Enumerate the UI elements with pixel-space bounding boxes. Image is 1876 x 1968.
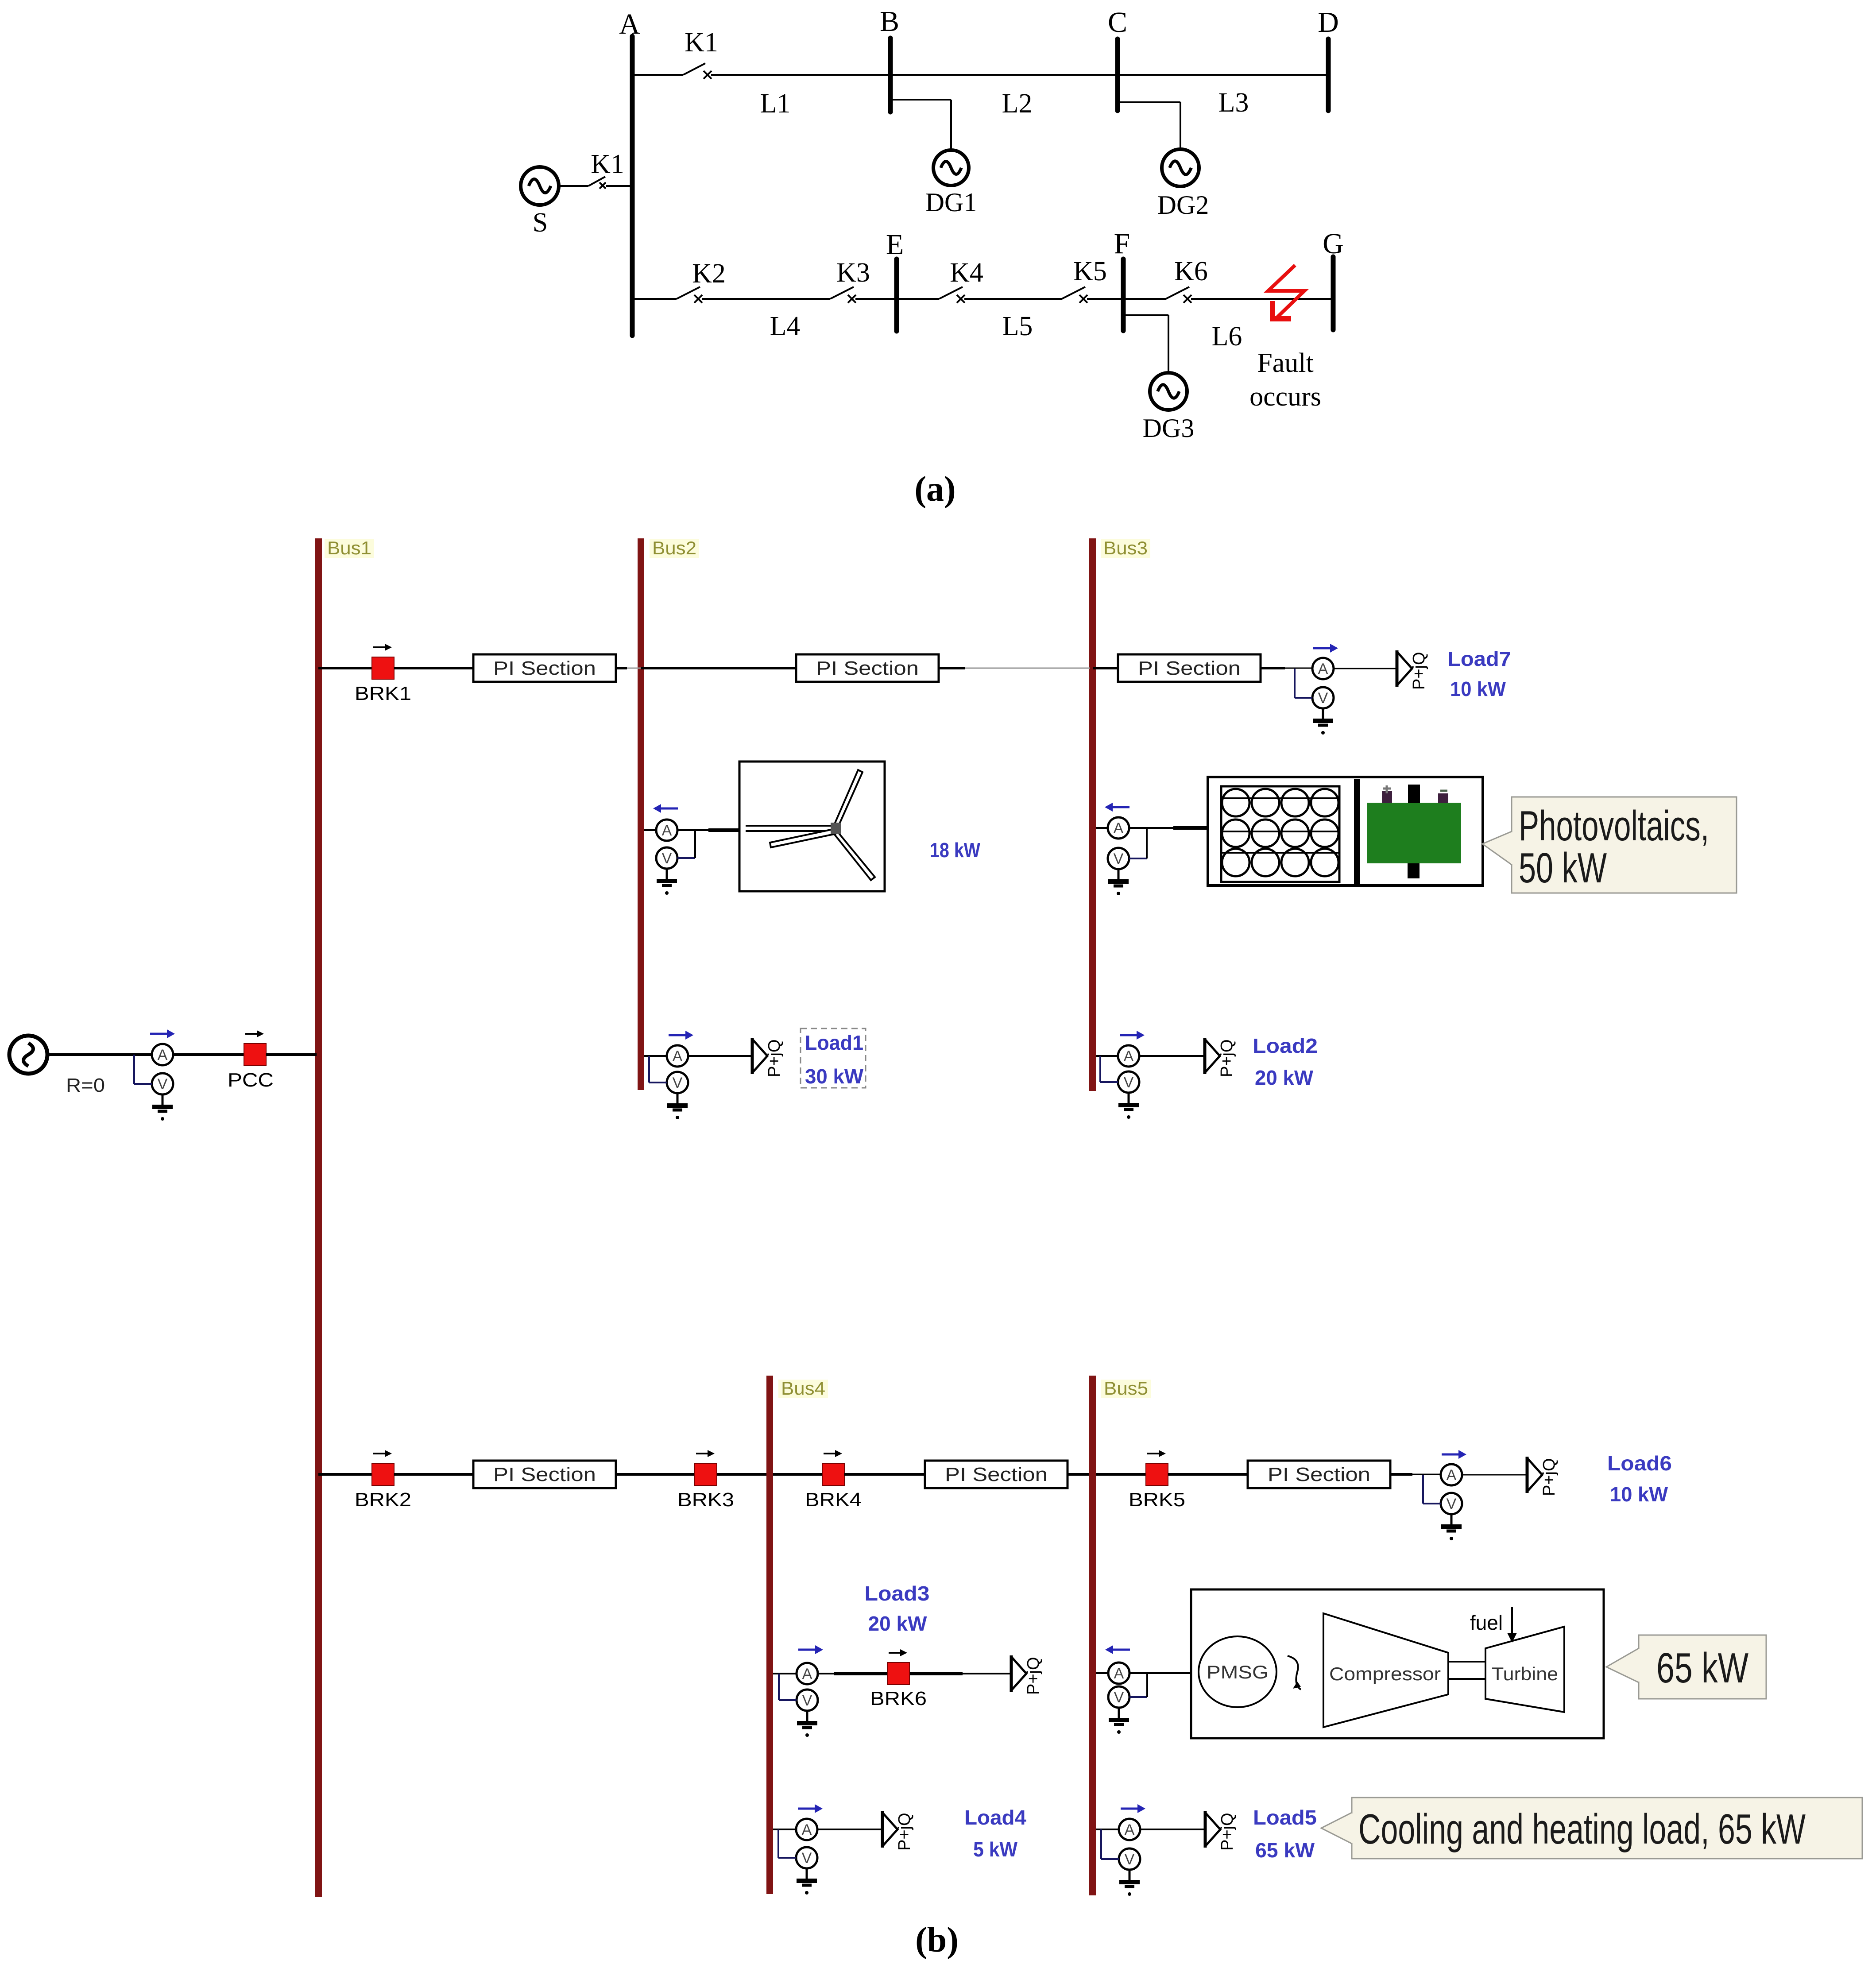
breaker BRK4 bbox=[805, 1450, 862, 1511]
PI section 4 bbox=[473, 1461, 616, 1488]
generator DG2 label bbox=[1157, 190, 1209, 220]
svg-text:BRK1: BRK1 bbox=[355, 683, 411, 704]
wire Bus1 to BRK1 bbox=[318, 667, 372, 669]
switch K5 x mark bbox=[1079, 295, 1087, 303]
flow arrow (Load2) bbox=[1120, 1031, 1145, 1040]
wire L5 K4 to K5 bbox=[964, 298, 1062, 300]
svg-text:A: A bbox=[1318, 661, 1328, 677]
svg-text:A: A bbox=[802, 1666, 812, 1682]
flow arrow (microturbine) bbox=[1105, 1645, 1130, 1654]
wire ammeter to BRK6 bbox=[818, 1673, 963, 1674]
load Load6 label bbox=[1607, 1452, 1672, 1506]
switch K5 blade bbox=[1062, 287, 1085, 299]
svg-text:Load5: Load5 bbox=[1253, 1806, 1317, 1829]
svg-text:Bus5: Bus5 bbox=[1104, 1378, 1148, 1399]
wire BRK5 to PI section 6 bbox=[1168, 1473, 1248, 1476]
bus F bbox=[1121, 259, 1126, 331]
svg-text:PI Section: PI Section bbox=[1268, 1464, 1370, 1485]
wire ammeter to wind turbine bbox=[677, 829, 740, 831]
svg-text:Cooling and heating load, 65 k: Cooling and heating load, 65 kW bbox=[1358, 1806, 1806, 1853]
svg-text:occurs: occurs bbox=[1249, 382, 1321, 412]
bus E label bbox=[886, 228, 904, 261]
load Load6 symbol bbox=[1527, 1457, 1559, 1496]
ammeter/voltmeter (Load4) bbox=[778, 1819, 817, 1895]
breaker BRK3 bbox=[677, 1450, 734, 1511]
wire bus B to DG1 bbox=[893, 100, 951, 150]
PI section 3 bbox=[1118, 654, 1261, 682]
svg-text:A: A bbox=[158, 1047, 168, 1063]
microturbine callout bbox=[1606, 1635, 1766, 1699]
wire ammeter to microturbine bbox=[1129, 1672, 1192, 1674]
svg-text:PI Section: PI Section bbox=[1138, 657, 1241, 679]
bus A bbox=[630, 36, 635, 336]
svg-text:K3: K3 bbox=[836, 258, 870, 288]
wire source to ammeter bbox=[47, 1053, 152, 1056]
ammeter/voltmeter (grid) bbox=[134, 1044, 173, 1121]
wire Bus1 to BRK2 bbox=[318, 1473, 372, 1476]
ammeter/voltmeter (Load2) bbox=[1100, 1045, 1139, 1119]
svg-text:DG3: DG3 bbox=[1143, 414, 1195, 443]
wire ammeter to PCC breaker bbox=[173, 1053, 244, 1056]
switch K5 label bbox=[1073, 256, 1107, 286]
grid source bbox=[9, 1036, 47, 1074]
svg-text:V: V bbox=[1318, 690, 1328, 707]
wire Bus4 to BRK4 bbox=[773, 1473, 822, 1476]
svg-text:Load2: Load2 bbox=[1253, 1034, 1318, 1057]
svg-text:P+jQ: P+jQ bbox=[895, 1813, 914, 1851]
svg-text:L1: L1 bbox=[760, 89, 791, 119]
wire ammeter to Load1 bbox=[688, 1055, 752, 1057]
wind power label bbox=[930, 839, 980, 862]
switch K1 blade (lower) bbox=[588, 177, 605, 186]
ammeter/voltmeter (Load6) bbox=[1423, 1464, 1462, 1540]
switch K1 x mark (lower) bbox=[600, 182, 606, 189]
svg-text:Load1: Load1 bbox=[805, 1031, 863, 1054]
wire bus C to DG2 bbox=[1120, 102, 1180, 149]
wire BRK2 to PI section 4 bbox=[394, 1473, 473, 1476]
load Load3 label bbox=[865, 1582, 930, 1635]
svg-text:Bus1: Bus1 bbox=[327, 537, 371, 558]
load Load1 symbol bbox=[752, 1038, 784, 1077]
switch K6 x mark bbox=[1184, 295, 1191, 303]
line L1 label bbox=[760, 89, 791, 119]
svg-text:P+jQ: P+jQ bbox=[765, 1039, 784, 1077]
svg-text:30 kW: 30 kW bbox=[805, 1065, 864, 1088]
flow arrow (PV) bbox=[1105, 803, 1129, 812]
svg-text:fuel: fuel bbox=[1470, 1611, 1503, 1634]
breaker BRK1 bbox=[355, 644, 411, 704]
svg-text:G: G bbox=[1323, 228, 1344, 260]
wire BRK6 to Load3 bbox=[963, 1673, 1011, 1674]
breaker PCC bbox=[244, 1030, 266, 1066]
wire ammeter to Load4 bbox=[817, 1829, 882, 1830]
svg-text:20 kW: 20 kW bbox=[868, 1612, 928, 1635]
wire Bus2 to ammeter (Load1) bbox=[644, 1055, 667, 1057]
svg-text:50 kW: 50 kW bbox=[1519, 844, 1607, 892]
svg-text:Compressor: Compressor bbox=[1329, 1663, 1441, 1684]
switch K3 x mark bbox=[848, 295, 856, 303]
svg-text:K2: K2 bbox=[692, 259, 726, 289]
wire ammeter to PV panel bbox=[1129, 827, 1209, 829]
wire K3 to bus E bbox=[855, 298, 897, 300]
load Load7 symbol bbox=[1397, 650, 1428, 690]
wind turbine bbox=[739, 762, 885, 891]
svg-text:V: V bbox=[673, 1075, 683, 1091]
ammeter/voltmeter (Load5) bbox=[1101, 1819, 1140, 1896]
wire L6 K6 to bus G bbox=[1191, 298, 1333, 300]
bus Bus1 label bbox=[325, 537, 374, 558]
wire bus F to K6 bbox=[1123, 298, 1166, 300]
wire ammeter to Load2 bbox=[1139, 1055, 1205, 1057]
line L4 label bbox=[770, 311, 801, 341]
load Load4 label bbox=[964, 1806, 1026, 1861]
svg-text:DG1: DG1 bbox=[925, 188, 977, 217]
source S label bbox=[533, 208, 548, 238]
svg-text:A: A bbox=[1114, 820, 1124, 837]
breaker BRK2 bbox=[355, 1450, 411, 1511]
wire bus F to DG3 bbox=[1126, 315, 1168, 373]
svg-text:PI Section: PI Section bbox=[945, 1464, 1048, 1485]
switch K2 blade bbox=[677, 287, 700, 299]
svg-text:BRK4: BRK4 bbox=[805, 1489, 862, 1511]
svg-text:A: A bbox=[1114, 1665, 1124, 1682]
load Load4 symbol bbox=[882, 1811, 914, 1851]
bus G label bbox=[1323, 228, 1344, 260]
bus Bus2 label bbox=[650, 537, 699, 558]
svg-text:65 kW: 65 kW bbox=[1255, 1839, 1315, 1862]
generator DG3 bbox=[1150, 373, 1187, 410]
generator DG2 bbox=[1162, 149, 1199, 186]
wire K1 to bus A (lower) bbox=[606, 185, 630, 187]
flow arrow (Load6) bbox=[1442, 1450, 1466, 1459]
wire Bus2 to ammeter (wind) bbox=[644, 829, 656, 831]
svg-text:Bus2: Bus2 bbox=[652, 537, 696, 558]
breaker BRK6 label bbox=[870, 1688, 927, 1709]
flow arrow (wind) bbox=[653, 804, 678, 813]
svg-text:DG2: DG2 bbox=[1157, 190, 1209, 220]
bus B label bbox=[880, 5, 899, 38]
svg-text:PI Section: PI Section bbox=[816, 657, 919, 679]
svg-text:Load7: Load7 bbox=[1447, 647, 1511, 670]
wire PI section 3 to ammeter Load7 bbox=[1261, 667, 1312, 669]
bus Bus4 label bbox=[778, 1378, 828, 1399]
flow arrow (Load7) bbox=[1313, 644, 1338, 653]
wire Bus2 to PI section 2 bbox=[641, 667, 796, 669]
generator DG1 label bbox=[925, 188, 977, 217]
svg-text:F: F bbox=[1114, 228, 1130, 260]
source S bbox=[521, 167, 559, 205]
load Load2 label bbox=[1253, 1034, 1318, 1089]
fault label bbox=[1249, 348, 1321, 412]
svg-text:R=0: R=0 bbox=[66, 1075, 105, 1096]
svg-text:(b): (b) bbox=[915, 1921, 959, 1960]
load Load7 label bbox=[1447, 647, 1511, 700]
bus B bbox=[888, 38, 893, 112]
wire BRK3 to Bus4 bbox=[717, 1473, 766, 1476]
svg-text:(a): (a) bbox=[914, 470, 955, 509]
svg-text:K5: K5 bbox=[1073, 256, 1107, 286]
breaker PCC label bbox=[228, 1069, 274, 1091]
breaker BRK6 bbox=[887, 1649, 909, 1685]
cooling load callout bbox=[1321, 1798, 1862, 1859]
load Load2 symbol bbox=[1205, 1038, 1236, 1077]
svg-text:V: V bbox=[1124, 1074, 1134, 1091]
wire bus A to switch K1 bbox=[634, 74, 683, 76]
switch K1 label (top) bbox=[685, 27, 718, 58]
switch K2 label bbox=[692, 259, 726, 289]
subfigure label (a) bbox=[914, 470, 955, 509]
bus F label bbox=[1114, 228, 1130, 260]
R=0 label bbox=[66, 1075, 105, 1096]
switch K3 label bbox=[836, 258, 870, 288]
svg-text:K4: K4 bbox=[950, 258, 983, 288]
svg-text:V: V bbox=[802, 1692, 812, 1709]
wire BRK1 to PI section 1 bbox=[394, 667, 474, 669]
switch K6 blade bbox=[1166, 287, 1189, 299]
load Load3 symbol bbox=[1011, 1655, 1043, 1695]
bus C label bbox=[1108, 6, 1127, 39]
switch K4 label bbox=[950, 258, 983, 288]
svg-text:Turbine: Turbine bbox=[1492, 1663, 1558, 1684]
svg-text:K1: K1 bbox=[685, 27, 718, 58]
flow arrow (Load1) bbox=[669, 1031, 693, 1040]
bus Bus2 bbox=[638, 538, 644, 1090]
svg-text:K6: K6 bbox=[1174, 256, 1208, 286]
switch K6 label bbox=[1174, 256, 1208, 286]
breaker BRK5 bbox=[1129, 1450, 1185, 1511]
wire BRK4 to PI section 5 bbox=[844, 1473, 925, 1476]
svg-text:A: A bbox=[802, 1821, 812, 1838]
svg-text:B: B bbox=[880, 5, 899, 38]
svg-text:V: V bbox=[1447, 1496, 1457, 1512]
svg-text:18 kW: 18 kW bbox=[930, 839, 980, 862]
svg-text:P+jQ: P+jQ bbox=[1218, 1039, 1236, 1077]
PI section 2 bbox=[796, 654, 939, 682]
svg-text:V: V bbox=[662, 850, 672, 867]
svg-text:BRK5: BRK5 bbox=[1129, 1489, 1185, 1511]
svg-text:Bus3: Bus3 bbox=[1103, 537, 1148, 558]
svg-text:10 kW: 10 kW bbox=[1450, 677, 1506, 700]
switch K4 x mark bbox=[957, 295, 965, 303]
ammeter/voltmeter (Load3) bbox=[779, 1663, 818, 1737]
svg-text:V: V bbox=[1114, 851, 1124, 867]
wire source to switch K1 (lower) bbox=[559, 185, 588, 187]
fault symbol bbox=[1268, 265, 1304, 321]
svg-text:BRK6: BRK6 bbox=[870, 1688, 927, 1709]
bus Bus5 bbox=[1089, 1376, 1096, 1895]
svg-text:S: S bbox=[533, 208, 548, 238]
bus Bus1 bbox=[315, 538, 322, 1897]
svg-text:A: A bbox=[673, 1048, 683, 1065]
svg-text:V: V bbox=[1125, 1851, 1135, 1868]
svg-text:BRK2: BRK2 bbox=[355, 1489, 411, 1511]
wire bus A to K2 bbox=[634, 298, 677, 300]
wire L1 K1 to bus B bbox=[711, 74, 890, 76]
wire Bus4 to ammeter (Load4) bbox=[773, 1829, 796, 1830]
svg-text:65 kW: 65 kW bbox=[1656, 1644, 1748, 1692]
wire PI section 5 to Bus5 bbox=[1068, 1473, 1089, 1476]
bus D bbox=[1326, 39, 1331, 111]
wire Bus5 to ammeter (microturbine) bbox=[1096, 1672, 1108, 1674]
svg-text:5 kW: 5 kW bbox=[973, 1838, 1018, 1861]
svg-text:L4: L4 bbox=[770, 311, 801, 341]
line L6 label bbox=[1212, 321, 1242, 352]
load Load1 label bbox=[801, 1028, 866, 1088]
flow arrow (Load4) bbox=[798, 1804, 823, 1813]
svg-text:20 kW: 20 kW bbox=[1255, 1066, 1314, 1089]
photovoltaic panel with battery bbox=[1208, 777, 1483, 887]
line L2 label bbox=[1002, 89, 1033, 119]
svg-text:PI Section: PI Section bbox=[493, 1464, 596, 1485]
svg-text:A: A bbox=[1447, 1467, 1457, 1484]
wire L2 bus B to bus C bbox=[890, 74, 1118, 76]
svg-text:PCC: PCC bbox=[228, 1069, 274, 1091]
switch K4 blade bbox=[939, 287, 963, 299]
switch K1 label (lower) bbox=[591, 149, 624, 179]
switch K2 x mark bbox=[694, 295, 702, 303]
wire Bus3 to ammeter (PV) bbox=[1096, 827, 1108, 829]
wire PI section 4 to BRK3 bbox=[616, 1473, 695, 1476]
svg-text:10 kW: 10 kW bbox=[1610, 1483, 1668, 1506]
svg-text:PMSG: PMSG bbox=[1207, 1662, 1269, 1682]
wire L3 bus C to bus D bbox=[1118, 74, 1328, 76]
bus D label bbox=[1318, 6, 1339, 39]
wire ammeter to Load5 bbox=[1140, 1829, 1205, 1830]
svg-text:L5: L5 bbox=[1002, 311, 1033, 341]
bus A label bbox=[619, 8, 640, 40]
switch K1 blade (top) bbox=[683, 63, 705, 75]
svg-text:L3: L3 bbox=[1218, 88, 1249, 118]
ammeter/voltmeter (wind) bbox=[656, 820, 695, 895]
wire PI section 6 to ammeter Load6 bbox=[1390, 1473, 1441, 1476]
wire ammeter to Load6 bbox=[1462, 1474, 1527, 1476]
flow arrow (Load3) bbox=[798, 1645, 823, 1654]
switch K1 x mark bbox=[704, 71, 712, 79]
svg-text:P+jQ: P+jQ bbox=[1024, 1657, 1043, 1695]
bus E bbox=[894, 259, 899, 331]
svg-text:C: C bbox=[1108, 6, 1127, 39]
PV callout bbox=[1482, 797, 1737, 893]
svg-text:V: V bbox=[802, 1850, 812, 1867]
PI section 1 bbox=[473, 654, 616, 682]
generator DG1 bbox=[933, 150, 969, 186]
wire bus E to K4 bbox=[897, 298, 939, 300]
microturbine (PMSG + compressor + turbine) bbox=[1191, 1589, 1604, 1738]
bus Bus3 label bbox=[1101, 537, 1150, 558]
svg-text:PI Section: PI Section bbox=[493, 657, 596, 679]
svg-text:P+jQ: P+jQ bbox=[1218, 1813, 1237, 1851]
wire Bus3 to PI section 3 bbox=[1093, 667, 1118, 669]
bus C bbox=[1115, 39, 1120, 111]
ammeter/voltmeter (Load1) bbox=[649, 1045, 688, 1119]
svg-text:Photovoltaics,: Photovoltaics, bbox=[1519, 802, 1709, 850]
wire Bus3 to ammeter (Load2) bbox=[1096, 1055, 1118, 1057]
wire PI section 1 to Bus2 bbox=[616, 667, 641, 669]
svg-text:P+jQ: P+jQ bbox=[1540, 1458, 1559, 1496]
svg-text:K1: K1 bbox=[591, 149, 624, 179]
svg-text:Load3: Load3 bbox=[865, 1582, 930, 1605]
svg-text:Load4: Load4 bbox=[964, 1806, 1026, 1829]
svg-text:E: E bbox=[886, 228, 904, 261]
wire PI section 2 to Bus3 bbox=[939, 667, 1090, 669]
svg-text:Load6: Load6 bbox=[1607, 1452, 1672, 1475]
PI section 6 bbox=[1248, 1461, 1390, 1488]
svg-text:Fault: Fault bbox=[1257, 348, 1313, 378]
ammeter/voltmeter (microturbine) bbox=[1108, 1663, 1147, 1734]
bus Bus4 bbox=[766, 1376, 773, 1894]
svg-text:V: V bbox=[1114, 1689, 1124, 1706]
flow arrow (Load5) bbox=[1121, 1804, 1145, 1813]
svg-text:A: A bbox=[1125, 1821, 1135, 1838]
svg-text:A: A bbox=[662, 822, 672, 839]
wire PCC to Bus1 bbox=[266, 1053, 317, 1056]
wire Bus5 to BRK5 bbox=[1096, 1473, 1146, 1476]
PI section 5 bbox=[925, 1461, 1068, 1488]
svg-text:L2: L2 bbox=[1002, 89, 1033, 119]
line L5 label bbox=[1002, 311, 1033, 341]
bus Bus5 label bbox=[1101, 1378, 1151, 1399]
wire ammeter to Load7 bbox=[1334, 668, 1397, 669]
svg-text:A: A bbox=[1124, 1048, 1134, 1065]
bus Bus3 bbox=[1089, 538, 1096, 1091]
switch K3 blade bbox=[830, 287, 854, 299]
wire Bus4 to ammeter (Load3) bbox=[773, 1673, 797, 1674]
load Load5 symbol bbox=[1205, 1811, 1237, 1851]
ammeter/voltmeter (Load7) bbox=[1295, 658, 1334, 735]
wire K5 to bus F bbox=[1087, 298, 1123, 300]
svg-text:Bus4: Bus4 bbox=[781, 1378, 825, 1399]
wire L4 K2 to K3 bbox=[702, 298, 830, 300]
bus G bbox=[1331, 257, 1336, 330]
load Load5 label bbox=[1253, 1806, 1317, 1862]
ammeter/voltmeter (PV) bbox=[1108, 817, 1147, 895]
svg-text:V: V bbox=[158, 1076, 168, 1093]
svg-text:P+jQ: P+jQ bbox=[1410, 652, 1428, 690]
svg-text:A: A bbox=[619, 8, 640, 40]
svg-text:D: D bbox=[1318, 6, 1339, 39]
svg-text:BRK3: BRK3 bbox=[677, 1489, 734, 1511]
svg-text:L6: L6 bbox=[1212, 321, 1242, 352]
generator DG3 label bbox=[1143, 414, 1195, 443]
subfigure label (b) bbox=[915, 1921, 959, 1960]
flow arrow (grid) bbox=[150, 1029, 175, 1038]
line L3 label bbox=[1218, 88, 1249, 118]
wire Bus5 to ammeter (Load5) bbox=[1096, 1829, 1119, 1830]
